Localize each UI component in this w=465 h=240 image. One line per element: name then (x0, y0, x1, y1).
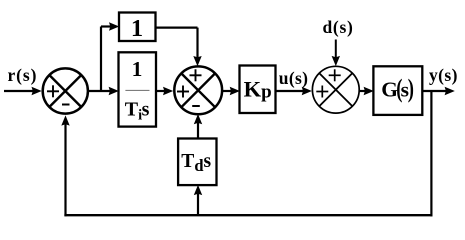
block Td s (derivative) (178, 139, 216, 186)
svg-text:u(s): u(s) (279, 68, 308, 88)
svg-text:1: 1 (132, 57, 143, 81)
plus sign S2 top input (190, 69, 202, 81)
plus sign S2 left input (177, 86, 189, 98)
wire feedback: bottom run (64, 214, 432, 216)
wire S1 output to Ti block with branch node (89, 87, 119, 95)
wire feedback: up to S1 minus input (61, 115, 69, 216)
svg-text:r(s): r(s) (8, 65, 38, 85)
plus sign S3 left input (316, 86, 328, 98)
plus sign S3 top input (329, 69, 341, 81)
summing junction S1 (43, 68, 88, 113)
svg-text:y(s): y(s) (429, 65, 458, 85)
wire Kp output to S3 (276, 87, 312, 95)
plus sign S1 left input (47, 85, 59, 97)
wire S2 output to Kp (222, 87, 240, 95)
label r(s) (8, 65, 38, 85)
svg-text:d(s): d(s) (323, 17, 354, 37)
block G(s) (plant) (373, 66, 422, 115)
wire feedback: branch down from output (430, 91, 432, 216)
wire S3 output to G(s) (359, 87, 374, 95)
wire block 1 output down to S2 top (156, 28, 202, 67)
block 1/Tis (integrator) (119, 52, 157, 126)
minus sign S2 bottom input (192, 105, 200, 107)
wire Ti output to S2 (156, 87, 173, 95)
label u(s) (279, 68, 308, 88)
block Kp (proportional gain) (240, 66, 276, 114)
svg-text:): ) (408, 74, 414, 103)
label y(s) (429, 65, 458, 85)
wire feedback branch: up to Td block (194, 185, 202, 215)
wire G(s) output y(s) (422, 87, 455, 95)
wire branch up to block 1 (101, 22, 119, 91)
wire input r(s) (4, 87, 42, 95)
wire d(s) down to S3 (332, 40, 340, 67)
block 1 (proportional path gain) (119, 13, 156, 42)
summing junction S2 (174, 66, 222, 114)
label d(s) (323, 17, 354, 37)
summing junction S3 (312, 66, 359, 113)
minus sign S1 bottom input (62, 104, 70, 106)
svg-text:Tis: Tis (125, 98, 150, 123)
svg-text:1: 1 (131, 15, 143, 42)
wire Td output up to S2 minus input (194, 114, 202, 139)
